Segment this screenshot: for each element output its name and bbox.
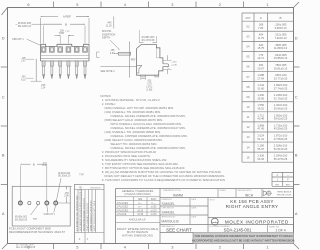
svg-text:SHEET NO.: SHEET NO. [269, 226, 280, 228]
svg-text:±.—: ±.— [151, 203, 156, 205]
svg-text:+.015: +.015 [171, 62, 177, 64]
svg-text:B: B [65, 23, 67, 27]
svg-text:6: 6 [27, 2, 29, 7]
svg-text:2 PLACES: 2 PLACES [117, 209, 129, 212]
svg-text:2: 2 [219, 245, 221, 250]
svg-text:B: B [279, 16, 281, 20]
svg-text:9. THIS PART CONFORMS TO CLASS: 9. THIS PART CONFORMS TO CLASS 3 REQUIRE… [102, 178, 225, 182]
svg-text:6. TOP ENTRY OPTIONS SEE DRAWI: 6. TOP ENTRY OPTIONS SEE DRAWING SDA-214… [102, 162, 179, 166]
svg-text:3.94: 3.94 [110, 52, 115, 55]
svg-text:±0.25: ±0.25 [137, 210, 143, 212]
svg-text:(206) SELECT GOLD .000015/0.00: (206) SELECT GOLD .000015/0.00038 MIN. [104, 138, 162, 142]
svg-text:±0.38: ±0.38 [137, 214, 143, 216]
svg-text:(S58) SELECT GOLD .000030/0.00: (S58) SELECT GOLD .000030/0.00076 MIN. [104, 118, 163, 122]
svg-text:molex: molex [212, 222, 219, 224]
svg-text:WITHIN DIMENSIONS: WITHIN DIMENSIONS [122, 233, 153, 237]
svg-text:DEPTH: DEPTH [102, 37, 111, 40]
svg-text:±.015: ±.015 [151, 214, 157, 216]
svg-text:KK 156 PCB ASSY: KK 156 PCB ASSY [230, 199, 274, 204]
svg-text:FL-TC/PDE JE-4: FL-TC/PDE JE-4 [16, 244, 34, 246]
svg-text:Ø.060±.002: Ø.060±.002 [15, 217, 28, 219]
svg-text:SELECT TIN .000100/0.00254 MIN: SELECT TIN .000100/0.00254 MIN. [110, 142, 157, 146]
svg-text:INSERTION: INSERTION [102, 33, 115, 36]
svg-text:(S09) OVERALL HOT TIN DIP .000: (S09) OVERALL HOT TIN DIP .000150/0.0025… [104, 106, 174, 110]
svg-text:.105: .105 [21, 58, 26, 60]
svg-text:WITH OVERALL GOLD FLASH .00001: WITH OVERALL GOLD FLASH .000010/0.00025 … [110, 122, 181, 126]
svg-text:.031: .031 [147, 81, 152, 83]
svg-text:D: D [2, 36, 5, 41]
svg-text:OVERALL COPPER UNDERPLATE .000: OVERALL COPPER UNDERPLATE .000050/0.0025… [110, 134, 187, 138]
svg-text:OVERALL NICKEL UNDERPLATE .000: OVERALL NICKEL UNDERPLATE .000030/0.0005… [110, 146, 185, 150]
svg-text:SEE NOTE 4: SEE NOTE 4 [100, 70, 115, 73]
svg-text:CHECKED BY: CHECKED BY [162, 208, 175, 210]
svg-text:SAMUEL: SAMUEL [162, 202, 176, 206]
svg-text:D: D [295, 36, 298, 41]
svg-text:3: 3 [171, 245, 173, 250]
svg-text:MIN PIN: MIN PIN [102, 30, 111, 33]
svg-text:4. PACKAGING INFO SEE CHARTS.: 4. PACKAGING INFO SEE CHARTS. [102, 154, 151, 158]
svg-text:2.67: 2.67 [21, 61, 26, 63]
svg-text:1.14: 1.14 [41, 88, 46, 90]
svg-text:B: B [33, 163, 35, 167]
svg-text:TYP: TYP [79, 174, 84, 176]
svg-text:7. BOTTOM ENTRY OPTIONS SEE DR: 7. BOTTOM ENTRY OPTIONS SEE DRAWING SDA-… [102, 166, 186, 170]
svg-text:Ø1.17±0.08: Ø1.17±0.08 [142, 39, 155, 42]
svg-text:CIRCUIT 1: CIRCUIT 1 [44, 214, 56, 216]
svg-text:RIGHT ANGLE ENTRY: RIGHT ANGLE ENTRY [226, 204, 279, 209]
svg-text:3. PRODUCT SPECIFICATION PS-08: 3. PRODUCT SPECIFICATION PS-08-02 [102, 150, 157, 154]
svg-text:±.010: ±.010 [151, 210, 157, 212]
svg-text:A: A [2, 211, 5, 216]
svg-text:3: 3 [171, 2, 173, 7]
svg-text:2. FINISH:: 2. FINISH: [102, 102, 116, 106]
svg-text:SHT: SHT [275, 184, 280, 186]
svg-text:INCH: INCH [245, 193, 254, 197]
svg-text:A: A [260, 16, 262, 20]
svg-text:REVISION: REVISION [91, 188, 101, 190]
svg-text:DIMENSION STYLE: DIMENSION STYLE [163, 190, 181, 192]
svg-text:.156: .156 [64, 193, 69, 195]
svg-text:NOTES:: NOTES: [100, 94, 111, 98]
svg-text:5. SOLDERABILITY SPECIFICATION: 5. SOLDERABILITY SPECIFICATION SMES-152 [102, 158, 167, 162]
svg-text:3.96: 3.96 [59, 32, 64, 35]
svg-text:C: C [295, 95, 298, 100]
svg-text:OVERALL NICKEL UNDERPLATE .000: OVERALL NICKEL UNDERPLATE .000050/0.0012… [110, 126, 185, 130]
svg-text:5: 5 [76, 245, 78, 250]
svg-text:±.005: ±.005 [151, 207, 157, 209]
svg-text:(.071): (.071) [146, 87, 152, 89]
svg-text:REF: REF [131, 58, 136, 61]
svg-text:(102) OVERALL TIN .000150/0.00: (102) OVERALL TIN .000150/0.00381 MIN. [104, 110, 161, 114]
svg-text:B: B [295, 153, 298, 158]
svg-text:11.18: 11.18 [106, 25, 113, 28]
svg-text:.155: .155 [110, 49, 115, 52]
svg-text:8. (R),(A),(W) DIMENSION IS BO: 8. (R),(A),(W) DIMENSION IS BOTTOM OF HO… [102, 170, 222, 174]
svg-text:C: C [2, 95, 5, 100]
svg-text:Ø.064±.004: Ø.064±.004 [58, 173, 71, 175]
svg-text:Ø.046±.003: Ø.046±.003 [142, 36, 155, 39]
svg-text:Ø1.63±0.10: Ø1.63±0.10 [58, 176, 71, 178]
svg-text:1. HOUSING MATERIAL: NYLON, UL: 1. HOUSING MATERIAL: NYLON, UL 94V-2 [102, 98, 160, 102]
svg-text:3 PLACES: 3 PLACES [117, 206, 129, 209]
svg-text:MARGULIS: MARGULIS [162, 219, 180, 223]
svg-text:DOES NOT REFLECT CENTER OF THE: DOES NOT REFLECT CENTER OF THE CONNECTOR… [104, 174, 225, 178]
svg-text:B: B [2, 153, 5, 158]
svg-text:1 OF 4: 1 OF 4 [275, 229, 285, 233]
svg-text:4 PLACES: 4 PLACES [117, 202, 129, 205]
svg-text:TITLE: TITLE [210, 199, 216, 201]
svg-text:TYP: TYP [65, 31, 70, 33]
svg-text:(1.80): (1.80) [146, 89, 152, 91]
svg-text:MOLEX INCORPORATED: MOLEX INCORPORATED [225, 219, 289, 224]
svg-text:Ø1.63±0.13: Ø1.63±0.13 [18, 25, 32, 28]
svg-text:CIRCUIT 1: CIRCUIT 1 [12, 38, 24, 41]
svg-text:5: 5 [76, 2, 78, 7]
svg-text:+0.38: +0.38 [171, 65, 177, 67]
svg-text:A REF: A REF [63, 15, 72, 19]
svg-text:PROJECTION: PROJECTION [277, 195, 292, 197]
svg-text:SDA-2145-001: SDA-2145-001 [224, 228, 252, 233]
svg-text:2: 2 [219, 2, 221, 7]
svg-text:Ø1.52±0.05: Ø1.52±0.05 [15, 220, 28, 222]
svg-text:.045: .045 [41, 85, 46, 87]
svg-text:DOCUMENT REVISED PER UCP2008-3: DOCUMENT REVISED PER UCP2008-3042 [80, 185, 82, 231]
svg-text:Ø.064±.005: Ø.064±.005 [18, 22, 32, 25]
svg-text:15.85: 15.85 [42, 165, 48, 167]
svg-text:IN/MM: IN/MM [173, 193, 183, 197]
svg-text:6.10: 6.10 [21, 79, 26, 81]
svg-text:SAMUEL: SAMUEL [162, 210, 176, 214]
svg-text:SEE CHART: SEE CHART [166, 228, 192, 233]
svg-text:OVERALL NICKEL UNDERPLATE .000: OVERALL NICKEL UNDERPLATE .000030/0.0007… [110, 114, 185, 118]
svg-text:0.79: 0.79 [147, 83, 152, 85]
svg-text:(102) OVERALL TIN .000200/0.00: (102) OVERALL TIN .000200/0.00508 MIN. [104, 130, 161, 134]
svg-text:INCH: INCH [151, 199, 157, 201]
svg-text:Rev. E 2006/04/15: Rev. E 2006/04/15 [16, 247, 36, 249]
svg-text:3.96: 3.96 [64, 196, 69, 198]
svg-text:1: 1 [266, 245, 268, 250]
svg-text:.240: .240 [21, 77, 26, 79]
svg-text:.440: .440 [107, 22, 112, 25]
svg-text:DESIGN UNITS: DESIGN UNITS [238, 190, 252, 192]
svg-text:TYP: TYP [33, 219, 38, 221]
svg-text:1 PLACE: 1 PLACE [117, 213, 127, 216]
svg-text:REV: REV [286, 184, 291, 186]
svg-text:A: A [295, 211, 298, 216]
svg-text:MM: MM [138, 199, 142, 201]
svg-text:1: 1 [266, 2, 268, 7]
